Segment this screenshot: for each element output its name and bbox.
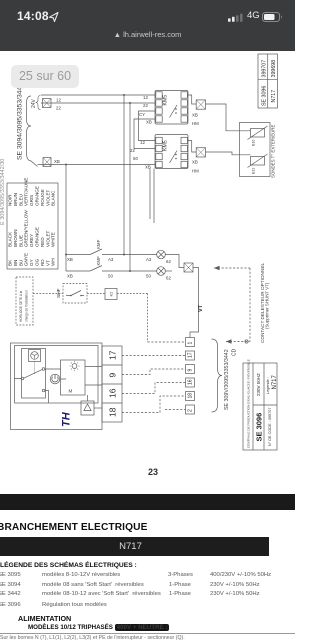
svg-text:BRUN: BRUN: [13, 193, 18, 206]
svg-text:E 3094/3095/3353/3442/30: E 3094/3095/3353/3442/30: [0, 159, 6, 225]
svg-text:BK: BK: [8, 259, 13, 266]
svg-text:WH: WH: [51, 258, 56, 266]
svg-text:399707: 399707: [261, 60, 267, 78]
svg-text:50: 50: [133, 156, 138, 161]
svg-text:62: 62: [166, 259, 171, 264]
svg-text:62: 62: [166, 276, 171, 281]
svg-text:17: 17: [108, 350, 118, 360]
svg-text:N717: N717: [272, 374, 278, 389]
svg-text:XB: XB: [67, 274, 73, 279]
svg-text:VERT/JAUNE: VERT/JAUNE: [24, 177, 29, 206]
svg-text:9: 9: [108, 373, 118, 378]
svg-text:K2: K2: [109, 291, 114, 297]
svg-text:16: 16: [188, 379, 194, 385]
svg-text:XB: XB: [54, 159, 60, 164]
svg-text:ROUGE: ROUGE: [40, 189, 45, 206]
svg-text:SE 309V/3095/3353/3442: SE 309V/3095/3353/3442: [224, 349, 230, 410]
svg-text:HM: HM: [192, 169, 199, 174]
svg-text:12: 12: [56, 98, 61, 103]
svg-text:RD: RD: [40, 259, 45, 266]
svg-text:B10: B10: [252, 140, 256, 146]
svg-text:Legende :: Legende :: [266, 377, 270, 394]
svg-text:GRIS: GRIS: [29, 195, 34, 206]
svg-text:GREY: GREY: [29, 234, 34, 247]
svg-text:N717: N717: [271, 90, 277, 103]
svg-text:22: 22: [143, 103, 148, 108]
svg-text:18: 18: [188, 393, 194, 399]
svg-text:CENTRALE DE PRODUCTION D'EAU G: CENTRALE DE PRODUCTION D'EAU GLACEE / RE…: [247, 359, 251, 448]
svg-text:(Supprimer SHUNT VT): (Supprimer SHUNT VT): [265, 282, 270, 329]
svg-text:A3: A3: [146, 257, 152, 262]
svg-text:12: 12: [143, 95, 148, 100]
svg-text:KMF: KMF: [96, 256, 101, 266]
svg-text:A3: A3: [108, 257, 114, 262]
svg-text:charge de l'installateur: charge de l'installateur: [25, 289, 29, 322]
svg-text:KMF: KMF: [96, 239, 101, 249]
svg-text:TH: TH: [61, 411, 73, 427]
svg-text:SE 3096: SE 3096: [261, 86, 267, 106]
svg-text:WHITE: WHITE: [51, 232, 56, 247]
svg-text:BLANC: BLANC: [51, 190, 56, 206]
svg-text:VT: VT: [198, 304, 204, 312]
svg-text:SONDES T° EXTERIEURE: SONDES T° EXTERIEURE: [271, 125, 276, 178]
svg-text:OG: OG: [35, 258, 40, 266]
svg-text:SHF: SHF: [56, 288, 62, 298]
svg-text:RED: RED: [40, 237, 45, 247]
svg-text:GREEN/YELLOW: GREEN/YELLOW: [24, 210, 29, 247]
svg-text:NOIR: NOIR: [8, 194, 13, 206]
svg-text:HM: HM: [192, 121, 199, 126]
svg-text:ORANGE: ORANGE: [35, 227, 40, 247]
svg-text:SE 3094/3095/3353/3442: SE 3094/3095/3353/3442: [17, 83, 24, 160]
svg-text:BU: BU: [18, 260, 23, 266]
svg-text:XB: XB: [192, 160, 198, 165]
svg-text:BN: BN: [13, 260, 18, 266]
svg-text:ORANGE: ORANGE: [35, 186, 40, 206]
svg-text:BLEU: BLEU: [18, 194, 23, 206]
svg-text:1: 1: [188, 342, 194, 345]
svg-text:22: 22: [130, 148, 135, 153]
svg-text:HORLOGE SETE A la: HORLOGE SETE A la: [19, 291, 23, 322]
svg-text:CY: CY: [139, 112, 145, 117]
svg-text:BLACK: BLACK: [8, 231, 13, 247]
svg-text:B13: B13: [252, 168, 256, 174]
svg-text:12: 12: [140, 140, 145, 145]
svg-text:399698: 399698: [271, 60, 277, 78]
svg-text:18: 18: [108, 407, 118, 417]
svg-text:GNYE: GNYE: [24, 253, 29, 266]
svg-text:230V 50HZ: 230V 50HZ: [256, 373, 261, 396]
svg-text:24V: 24V: [31, 98, 37, 108]
svg-text:VIOLET: VIOLET: [45, 189, 50, 206]
svg-text:M: M: [69, 389, 73, 394]
svg-text:GY: GY: [29, 259, 34, 266]
svg-text:50: 50: [108, 274, 113, 279]
svg-text:BLUE: BLUE: [18, 235, 23, 247]
svg-text:CD: CD: [232, 348, 238, 356]
svg-text:SE 3096: SE 3096: [255, 413, 264, 442]
svg-text:BROWN: BROWN: [13, 229, 18, 247]
svg-text:XB: XB: [192, 113, 198, 118]
svg-text:50: 50: [146, 274, 151, 279]
svg-text:VT: VT: [45, 260, 50, 266]
svg-text:2: 2: [188, 409, 194, 412]
svg-text:17: 17: [188, 352, 194, 358]
svg-text:16: 16: [108, 388, 118, 398]
svg-text:XB: XB: [67, 257, 73, 262]
svg-text:N° DE CODE : 399707: N° DE CODE : 399707: [268, 408, 272, 446]
svg-text:9: 9: [188, 369, 194, 372]
svg-text:VIOLET: VIOLET: [45, 230, 50, 247]
svg-text:22: 22: [56, 106, 61, 111]
svg-text:KM5: KM5: [163, 140, 169, 151]
svg-text:XB: XB: [146, 120, 152, 125]
svg-text:KM5: KM5: [163, 95, 169, 106]
